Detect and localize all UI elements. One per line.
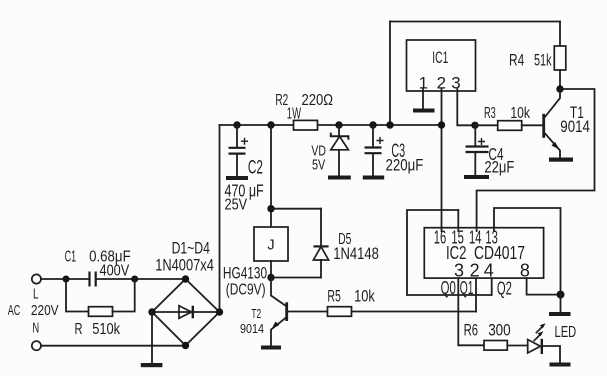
wire trunk bus to J (270, 125, 272, 227)
svg-text:1N4007x4: 1N4007x4 (155, 255, 214, 274)
svg-text:N: N (32, 321, 39, 337)
wire R6 to LED (507, 345, 527, 347)
bridge rectifier D1~D4 (152, 239, 220, 346)
wire D5 bottom to trunk (271, 277, 321, 279)
svg-text:J: J (267, 238, 274, 254)
svg-text:R4: R4 (509, 51, 524, 69)
node bus/trunk (267, 121, 274, 128)
svg-text:13: 13 (485, 228, 498, 248)
svg-text:HG4130: HG4130 (223, 264, 267, 283)
svg-text:1W: 1W (287, 106, 302, 123)
wire node to ground (560, 295, 562, 312)
svg-text:9014: 9014 (240, 321, 264, 336)
wire C1 to bridge (97, 278, 186, 280)
wire R5 to IC2 pin2 (352, 311, 477, 313)
wire T2 base to R5 (287, 311, 328, 313)
svg-text:Q2: Q2 (497, 279, 512, 299)
svg-text:51k: 51k (534, 51, 552, 69)
terminal N (32, 341, 41, 350)
svg-text:T2: T2 (251, 306, 261, 321)
wire L to C1 (41, 278, 89, 280)
IC2 pin 13 (485, 228, 498, 248)
svg-text:10k: 10k (354, 286, 375, 305)
capacitor C1 (65, 248, 131, 286)
resistor R 510k parallel branch (66, 279, 135, 338)
IC2 pin 14 (469, 228, 482, 248)
svg-text:9014: 9014 (560, 118, 590, 136)
wire J bottom to collector node (270, 261, 272, 278)
wire N to bridge (41, 345, 186, 347)
wire collector node to IC2 pin 14 (477, 89, 595, 228)
svg-text:14: 14 (469, 228, 482, 248)
node L branch (63, 276, 70, 283)
IC2 pin 16 (434, 228, 447, 248)
node bridge top (182, 275, 189, 282)
svg-text:R5: R5 (327, 286, 340, 305)
wire bus right of R2 (318, 124, 442, 126)
IC2 pin 3 (454, 261, 464, 281)
node T1 collector junction (556, 85, 563, 92)
IC1 pin 3 (451, 74, 460, 93)
IC2 pin 8 (520, 261, 530, 281)
node pin8/pin13 ground junction (557, 291, 565, 299)
ground C2 (226, 176, 248, 180)
relay J box (254, 227, 288, 261)
wire top rail (390, 21, 560, 23)
IC2 pin 4 (484, 261, 494, 281)
svg-text:10k: 10k (510, 105, 530, 122)
wire riser from bus to top rail (389, 22, 391, 126)
ground C4 (464, 175, 489, 179)
resistor R2 (275, 92, 333, 130)
wire trunk to D5 top (271, 208, 321, 210)
resistor R5 (327, 286, 375, 316)
node bus end / IC1 pin2 (438, 121, 445, 128)
wire bridge left to ground (151, 312, 153, 363)
wire IC2 pin15 riser (457, 210, 459, 228)
svg-text:R: R (75, 321, 83, 338)
IC1 box (407, 40, 476, 91)
wire R3 node to resistor (475, 124, 498, 126)
svg-text:220μF: 220μF (386, 156, 424, 174)
terminal L (32, 274, 41, 283)
node bus/riser (386, 121, 393, 128)
main supply bus (220, 124, 294, 126)
ground C3 (363, 176, 384, 180)
svg-text:1N4148: 1N4148 (333, 244, 379, 263)
LED (528, 323, 577, 354)
ground T1 emitter (549, 158, 573, 162)
svg-text:510k: 510k (92, 321, 121, 338)
node bus/C3 (369, 121, 376, 128)
IC1 pin 2 (437, 74, 446, 93)
svg-text:16: 16 (434, 228, 447, 248)
resistor R4 (509, 46, 566, 70)
ground LED (550, 363, 571, 367)
node trunk/D5 top (267, 205, 274, 212)
svg-text:(DC9V): (DC9V) (226, 282, 266, 299)
wire R3 to T1 base (522, 124, 544, 126)
IC2 pin 15 (451, 228, 464, 248)
node C1 right (131, 276, 138, 283)
resistor R6 (464, 321, 511, 350)
svg-text:220V: 220V (31, 303, 59, 319)
wire IC2 pin13 to ground node (494, 208, 561, 295)
svg-text:C1: C1 (65, 248, 77, 265)
svg-text:5V: 5V (312, 158, 326, 174)
svg-text:R3: R3 (484, 105, 496, 122)
svg-text:LED: LED (555, 324, 577, 341)
IC1 pin 1 (419, 74, 428, 93)
transistor T2 9014 (240, 278, 287, 346)
svg-text:CD4017: CD4017 (474, 242, 525, 263)
wire bus down to bridge + corner (219, 125, 221, 312)
node bridge right (216, 308, 223, 315)
svg-text:25V: 25V (225, 197, 248, 214)
capacitor C3 (365, 125, 424, 176)
svg-text:C2: C2 (248, 158, 263, 179)
IC2 CD4017 box (424, 228, 543, 278)
svg-text:220Ω: 220Ω (302, 92, 334, 109)
svg-text:L: L (33, 287, 39, 303)
node bridge left (148, 308, 155, 315)
node R3/C4 junction (471, 122, 478, 129)
ground VD (328, 176, 351, 180)
wire IC1 pin3 to R3 node (457, 91, 475, 125)
wire IC1 pin2 / bus / IC2 pin16 vertical (441, 91, 443, 228)
svg-text:300: 300 (488, 321, 511, 340)
wire IC2 pin3 (Q0) to R6 (458, 278, 484, 345)
node bridge bottom (182, 342, 189, 349)
wire top rail drop to R4 (559, 22, 561, 47)
ground pin8/13 node (549, 312, 571, 316)
svg-text:R6: R6 (464, 321, 478, 340)
ground IC1 pin1 (413, 109, 435, 113)
wire IC2 pin8 to ground node (527, 278, 561, 295)
wire R4 bottom to collector node (559, 70, 561, 89)
capacitor C4 (466, 125, 515, 176)
svg-text:8: 8 (520, 261, 530, 281)
svg-text:IC1: IC1 (432, 49, 448, 67)
node bus/VD (335, 121, 342, 128)
wire IC1 pin1 to ground (422, 91, 424, 109)
wire IC2 pin2 drop (475, 278, 477, 311)
svg-text:400V: 400V (100, 262, 130, 279)
node T2 collector junction (267, 274, 274, 281)
diode D5 1N4148 (313, 209, 379, 278)
svg-text:3: 3 (451, 74, 460, 93)
node bus/C2 (233, 121, 240, 128)
ground T2 emitter (261, 346, 281, 350)
svg-text:22μF: 22μF (484, 158, 514, 176)
resistor R3 (484, 105, 531, 131)
transistor T1 9014 (544, 89, 590, 158)
svg-text:AC: AC (8, 303, 21, 319)
svg-text:15: 15 (451, 228, 464, 248)
ground bridge (141, 363, 163, 367)
zener diode VD 5V (311, 125, 348, 176)
wire LED to ground (542, 346, 560, 363)
IC2 pin 2 (470, 261, 480, 281)
wire reset loop Q2(pin4) to pin15 (407, 210, 492, 295)
capacitor C2 (225, 125, 264, 214)
